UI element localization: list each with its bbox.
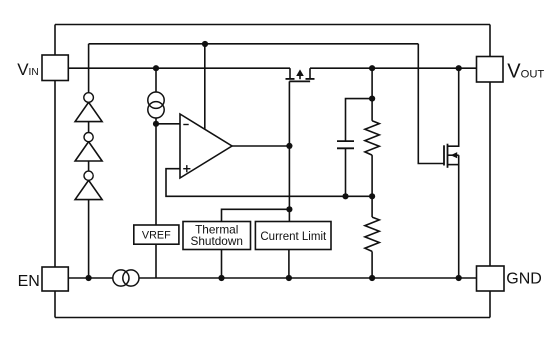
svg-text:Shutdown: Shutdown — [190, 234, 242, 248]
svg-text:VOUT: VOUT — [507, 61, 544, 83]
svg-text:GND: GND — [506, 271, 542, 288]
svg-text:Current Limit: Current Limit — [260, 231, 327, 243]
svg-text:EN: EN — [18, 273, 40, 290]
svg-text:VIN: VIN — [17, 60, 39, 79]
svg-text:VREF: VREF — [142, 229, 171, 241]
